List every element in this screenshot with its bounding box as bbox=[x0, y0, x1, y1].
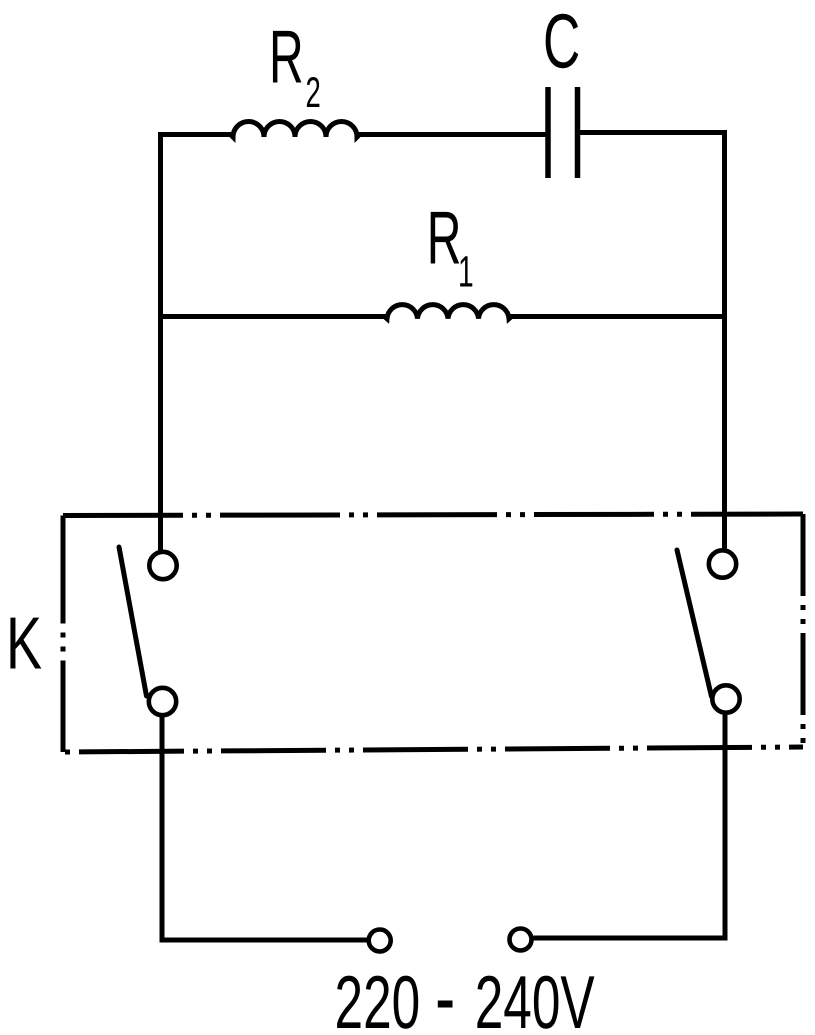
svg-text:C: C bbox=[543, 0, 580, 85]
label 220 - 240V (mains voltage) bbox=[335, 960, 595, 1035]
label R1 bbox=[427, 196, 474, 297]
svg-text:220: 220 bbox=[335, 960, 421, 1035]
wire: top rail right segment (capacitor to right riser) bbox=[578, 130, 728, 135]
switch K1 (left pole): lever arm bbox=[119, 547, 147, 696]
svg-text:K: K bbox=[6, 601, 42, 684]
capacitor C: left plate bbox=[545, 87, 551, 178]
relay K enclosure: bottom boundary (dash-dot-dot) bbox=[63, 747, 803, 752]
resistor R2 (coil) with top-rail lead wires bbox=[158, 122, 546, 138]
svg-text:2: 2 bbox=[306, 69, 321, 117]
relay K enclosure: left boundary (dash-dot-dot) bbox=[61, 516, 66, 753]
svg-text:1: 1 bbox=[458, 247, 474, 296]
wire: right drop from switch to bottom rail and to supply terminal bbox=[534, 713, 726, 938]
supply terminal left (open circle) bbox=[369, 930, 391, 952]
wire: right vertical riser (top rail down to switch contact) bbox=[722, 130, 727, 549]
switch K2 (right pole): top contact circle bbox=[709, 550, 736, 577]
switch K2 (right pole): bottom contact circle bbox=[712, 685, 739, 712]
relay K enclosure: right boundary (dash-dot-dot) bbox=[801, 514, 806, 747]
switch K1 (left pole): top contact circle bbox=[149, 552, 176, 579]
switch K2 (right pole): lever arm bbox=[677, 550, 712, 697]
capacitor C: right plate bbox=[575, 87, 581, 178]
switch K1 (left pole): bottom contact circle bbox=[149, 688, 176, 715]
svg-text:R: R bbox=[427, 196, 462, 280]
resistor R1 (coil) with middle branch lead wires bbox=[158, 305, 727, 319]
relay K enclosure: top boundary (dash-dot-dot) bbox=[63, 514, 803, 516]
svg-text:240V: 240V bbox=[475, 960, 595, 1035]
svg-text:R: R bbox=[269, 15, 304, 99]
wire: left vertical riser (top rail down to switch contact) bbox=[158, 132, 163, 550]
supply terminal right (open circle) bbox=[510, 929, 532, 951]
wire: left drop from switch to bottom rail and to supply terminal bbox=[162, 716, 367, 941]
label R2 bbox=[269, 15, 321, 117]
